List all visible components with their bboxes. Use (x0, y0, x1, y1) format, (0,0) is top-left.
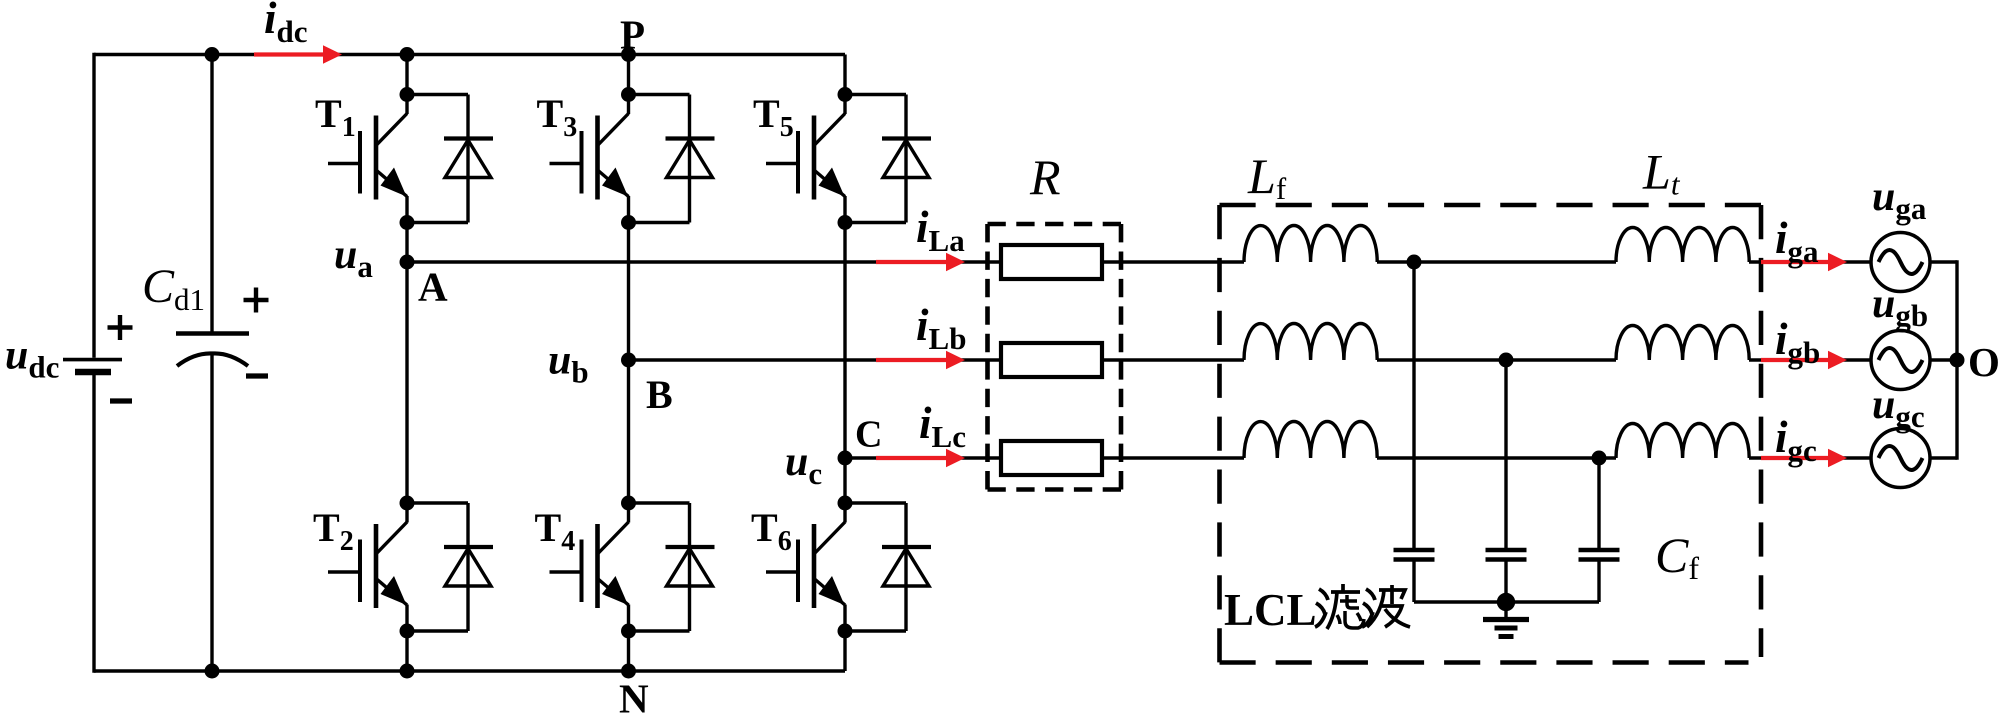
junction dot leg 3 emitter join bottom (838, 624, 853, 639)
wire phase b Lf to Lt (1377, 358, 1616, 361)
label + of u_dc (108, 325, 133, 329)
wire phase A inverter to resistor (407, 260, 1001, 263)
dashed box LCL filter (1220, 203, 1762, 208)
resistor Rc (1001, 441, 1102, 475)
junction dot C_f tap phase a (1407, 255, 1422, 270)
wire leg 1 mid section (405, 223, 408, 504)
diode anti-parallel of T1 (407, 93, 468, 96)
svg-text:B: B (646, 372, 673, 417)
junction dot leg 3 collector split (838, 87, 853, 102)
diode anti-parallel of T6 (845, 501, 906, 504)
transistor T6 (843, 503, 846, 523)
inductor L_f phase c (1244, 421, 1377, 458)
inductor L_t phase c (1616, 423, 1749, 458)
resistor Rb (1001, 343, 1102, 377)
junction dot leg 2 on top bus (621, 47, 636, 62)
arrow i_gb (1761, 358, 1832, 362)
capacitor C_d1 (176, 331, 249, 335)
wire u_ga to O bus (1929, 260, 1958, 263)
svg-text:N: N (619, 676, 649, 720)
wire bottom DC bus N rail (94, 669, 845, 672)
label - of u_dc (110, 398, 132, 403)
junction dot leg 2 collector split (621, 87, 636, 102)
transistor T2 (405, 503, 408, 523)
wire C_f branch phase a (1412, 262, 1415, 550)
wire C_d1 bottom branch (210, 354, 213, 672)
junction dot leg 2 collector split bottom (621, 496, 636, 511)
svg-text:C: C (855, 414, 882, 456)
arrow i_La (876, 260, 950, 264)
diode anti-parallel of T4 (629, 501, 690, 504)
resistor Ra (1001, 245, 1102, 279)
wire phase b Lt to grid source (1749, 358, 1871, 361)
junction dot C_f tap phase b (1499, 353, 1514, 368)
wire leg 1 top bus to collector split (405, 55, 408, 95)
arrow i_gc (1761, 456, 1832, 460)
capacitor C_f phase b (1486, 548, 1527, 552)
wire C_d1 top branch (210, 55, 213, 334)
junction dot C_d1 top bus (205, 47, 220, 62)
diode anti-parallel of T3 (629, 93, 690, 96)
junction dot leg 3 collector split bottom (838, 496, 853, 511)
transistor T5 (843, 95, 846, 115)
wire u_gb to O bus (1929, 358, 1958, 361)
wire C_f common bus (1414, 600, 1599, 603)
wire Rb to LCL filter (1102, 358, 1244, 361)
junction dot leg 2 on bottom bus (621, 664, 636, 679)
wire leg 3 mid section (843, 223, 846, 504)
capacitor C_f phase a (1394, 548, 1435, 552)
junction dot leg 1 collector split (400, 87, 415, 102)
capacitor C_f phase c (1579, 548, 1620, 552)
junction dot leg 3 emitter join top (838, 215, 853, 230)
node A dot (400, 255, 415, 270)
battery source u_dc plates (63, 358, 122, 362)
arrow i_Lb (876, 358, 950, 362)
ac source u_gc circle (1871, 429, 1930, 488)
svg-text:O: O (1968, 339, 2000, 385)
transistor T4 (627, 503, 630, 523)
inductor L_f phase b (1244, 323, 1377, 360)
wire top DC bus P rail (94, 53, 845, 56)
wire leg 2 top bus to collector split (627, 55, 630, 95)
diode anti-parallel of T5 (845, 93, 906, 96)
svg-text:R: R (1029, 149, 1061, 205)
wire O vertical bus (1955, 260, 1958, 459)
junction dot C_d1 bottom bus (205, 664, 220, 679)
wire C_f branch phase b (1504, 360, 1507, 550)
node C dot (838, 451, 853, 466)
junction dot leg 1 on bottom bus (400, 664, 415, 679)
node O dot (1950, 353, 1965, 368)
arrow i_Lc (876, 456, 950, 460)
ac source u_gb circle (1871, 331, 1930, 390)
junction dot leg 1 emitter join top (400, 215, 415, 230)
junction dot leg 2 emitter join bottom (621, 624, 636, 639)
ground symbol (1504, 602, 1507, 618)
wire leg 1 to bottom bus (405, 631, 408, 671)
wire leg 2 to bottom bus (627, 631, 630, 671)
svg-text:LCL: LCL (1224, 585, 1317, 635)
label LCL filter CJK char lv(滤) (1315, 589, 1328, 627)
wire leg 3 top bus to collector split (843, 55, 846, 95)
svg-text:A: A (418, 264, 448, 310)
label + of C_d1 (244, 298, 269, 302)
transistor T3 (627, 95, 630, 115)
junction dot C_f star point (1497, 593, 1515, 611)
wire leg 2 mid section (627, 223, 630, 504)
arrow i_dc (254, 52, 327, 56)
ac source u_ga circle (1871, 233, 1930, 292)
wire left DC rail upper segment (92, 53, 95, 358)
wire left DC rail lower segment (92, 375, 95, 673)
junction dot leg 1 collector split bottom (400, 496, 415, 511)
wire leg 3 to bottom bus (843, 631, 846, 671)
wire u_gc to O bus (1929, 456, 1958, 459)
wire phase c Lf to Lt (1377, 456, 1616, 459)
diode anti-parallel of T2 (407, 501, 468, 504)
inductor L_t phase b (1616, 325, 1749, 360)
wire phase B inverter to resistor (629, 358, 1002, 361)
wire phase a Lt to grid source (1749, 260, 1871, 263)
wire phase a Lf to Lt (1377, 260, 1616, 263)
arrow i_ga (1761, 260, 1832, 264)
inductor L_t phase a (1616, 227, 1749, 262)
wire Ra to LCL filter (1102, 260, 1244, 263)
label LCL filter CJK char bo(波) (1362, 589, 1375, 627)
transistor T1 (405, 95, 408, 115)
junction dot C_f tap phase c (1592, 451, 1607, 466)
node B dot (621, 353, 636, 368)
wire C_f branch phase c (1597, 458, 1600, 550)
wire phase c Lt to grid source (1749, 456, 1871, 459)
junction dot leg 1 on top bus (400, 47, 415, 62)
wire Rc to LCL filter (1102, 456, 1244, 459)
junction dot leg 2 emitter join top (621, 215, 636, 230)
wire phase C inverter to resistor (845, 456, 1001, 459)
dashed box R (988, 222, 1122, 227)
inductor L_f phase a (1244, 225, 1377, 262)
junction dot leg 1 emitter join bottom (400, 624, 415, 639)
label - of C_d1 (246, 373, 268, 378)
